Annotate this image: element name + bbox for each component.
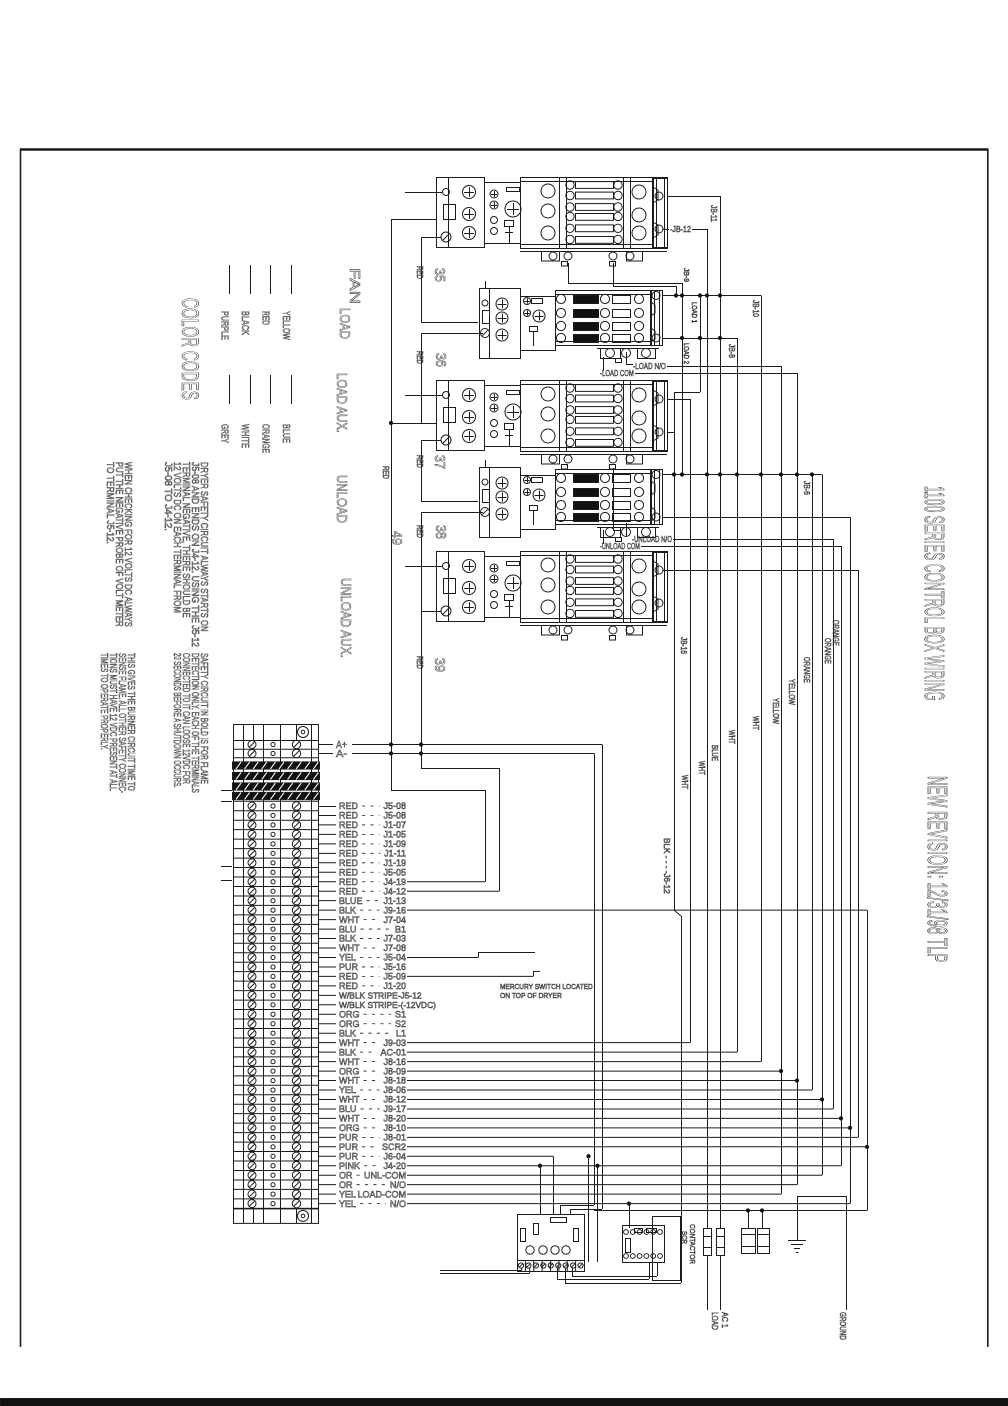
legend tick BLUE bbox=[291, 375, 293, 404]
bus: unload coil bottom bbox=[662, 517, 850, 519]
bottom scan band bbox=[1, 1399, 1008, 1406]
svg-text:AC 1: AC 1 bbox=[720, 1312, 729, 1328]
border frame top bbox=[20, 148, 989, 151]
svg-text:SCR: SCR bbox=[680, 1231, 688, 1244]
svg-text:MERCURY SWITCH LOCATED: MERCURY SWITCH LOCATED bbox=[500, 984, 593, 991]
svg-text:LOAD: LOAD bbox=[337, 308, 354, 339]
svg-text:JB-8: JB-8 bbox=[727, 344, 737, 358]
svg-text:UNLOAD AUX.: UNLOAD AUX. bbox=[338, 578, 355, 658]
contactor 39 (UNLOAD AUX) bbox=[437, 551, 668, 640]
svg-text:BLACK: BLACK bbox=[240, 311, 251, 335]
legend tick BLACK bbox=[250, 265, 252, 294]
power board terminal row bbox=[518, 1261, 585, 1272]
terminal strip top cap bbox=[234, 725, 319, 741]
wire UNL N/O row bbox=[407, 1184, 797, 1186]
svg-text:35: 35 bbox=[432, 268, 449, 282]
wire JB-11 bbox=[667, 196, 720, 198]
terminal strip bottom cap bbox=[234, 1208, 319, 1223]
svg-text:COLOR CODES: COLOR CODES bbox=[176, 298, 203, 400]
extra drops beside power board bbox=[586, 1154, 590, 1158]
svg-text:LOAD 1: LOAD 1 bbox=[690, 302, 698, 323]
svg-text:A-: A- bbox=[336, 748, 348, 759]
wire UNLOAD COM bbox=[603, 530, 605, 544]
wire fuse2 to LOAD AC1 bbox=[720, 1255, 722, 1310]
wire: red daisy chain 37 to 38 bbox=[421, 440, 441, 442]
wire LOAD COM bbox=[603, 357, 605, 371]
bracket marks left of strip bbox=[221, 790, 232, 792]
svg-text:GREY: GREY bbox=[219, 424, 231, 443]
row wires to vertical bus drops bbox=[407, 1042, 690, 1044]
bus: contactor 39 clamp bbox=[663, 570, 858, 572]
wire red tail to J4-12 bbox=[421, 768, 499, 770]
svg-text:YEL: YEL bbox=[339, 1199, 356, 1209]
legend tick GREY bbox=[229, 375, 231, 404]
wire UNL-COM row bbox=[407, 1174, 822, 1176]
power board left stubs bbox=[440, 1270, 522, 1272]
wire 49 tail to J4-19 bbox=[391, 790, 485, 792]
bus line to transformer fuses bbox=[594, 1210, 867, 1212]
svg-text:GROUND: GROUND bbox=[838, 1312, 848, 1340]
svg-text:WHT: WHT bbox=[751, 716, 760, 731]
svg-text:-LOAD COM: -LOAD COM bbox=[600, 370, 634, 378]
contactor 36 (LOAD) bbox=[480, 281, 663, 363]
power supply board bbox=[518, 1215, 585, 1261]
ground symbol bbox=[797, 1205, 799, 1240]
svg-text:20 SECONDS BEFORE A SHUTDOWN O: 20 SECONDS BEFORE A SHUTDOWN OCCURS. bbox=[172, 653, 183, 788]
svg-text:ORANGE: ORANGE bbox=[260, 424, 272, 453]
terminal strip bold flame rows (hatched) bbox=[233, 762, 320, 769]
wire A- bbox=[352, 753, 594, 755]
fuse 1 (JB-12 feed) bbox=[704, 1229, 712, 1256]
wire: input stub contactor 37 bbox=[405, 395, 442, 397]
wire LOAD N/O bbox=[626, 352, 628, 364]
wire BLK J6-12 long drop bbox=[667, 432, 674, 434]
svg-text:RED: RED bbox=[415, 656, 424, 669]
wire JB-12 bbox=[663, 229, 669, 231]
svg-text:RED: RED bbox=[415, 455, 424, 468]
svg-text:WHITE: WHITE bbox=[240, 424, 251, 448]
bus: load coil top (JB-10) bbox=[662, 295, 761, 297]
legend tick RED bbox=[270, 265, 272, 294]
wire: red tail from 39 down to A- bbox=[421, 611, 441, 613]
legend tick YELLOW bbox=[291, 265, 293, 294]
svg-text:RED: RED bbox=[415, 351, 424, 364]
svg-text:JB-10: JB-10 bbox=[751, 300, 761, 317]
svg-text:ORANGE: ORANGE bbox=[802, 657, 810, 683]
svg-text:49: 49 bbox=[389, 531, 406, 545]
svg-text:FAN: FAN bbox=[346, 268, 363, 304]
svg-text:36: 36 bbox=[433, 353, 450, 367]
svg-text:JB-11: JB-11 bbox=[709, 205, 719, 222]
svg-text:UNLOAD: UNLOAD bbox=[334, 475, 351, 523]
svg-text:YELLOW: YELLOW bbox=[281, 311, 293, 341]
wire JB-16 from contactor 37 bbox=[667, 399, 690, 401]
wire fuse1 to LOAD AC1 bbox=[707, 1255, 709, 1310]
svg-text:N/O: N/O bbox=[390, 1199, 406, 1209]
legend tick PURPLE bbox=[229, 265, 231, 294]
svg-text:-LOAD N/O: -LOAD N/O bbox=[633, 361, 666, 371]
svg-text:JB-6: JB-6 bbox=[802, 481, 812, 495]
svg-text:YELLOW: YELLOW bbox=[771, 698, 780, 724]
svg-text:J5-08 TO J4-12.: J5-08 TO J4-12. bbox=[162, 462, 173, 531]
wire N/O branch into SCR bbox=[627, 1202, 631, 1206]
transformer fuse holders bbox=[742, 1229, 756, 1254]
bus: unload coil top bbox=[662, 474, 822, 476]
wire: mid stub contactor 37 bbox=[391, 423, 436, 425]
power board terminal drop wires bbox=[557, 1268, 559, 1279]
wire: red daisy chain 38 to 39 bbox=[421, 512, 483, 514]
fuse 2 (JB-11 feed) bbox=[717, 1229, 725, 1256]
terminal strip body bbox=[234, 741, 319, 1209]
wire: contactor 35 foot to bus1 bbox=[613, 263, 615, 286]
svg-text:BLUE: BLUE bbox=[710, 745, 719, 761]
wire LOAD N/O row bbox=[407, 1203, 850, 1205]
wire: red daisy chain 35 to 36 bbox=[421, 237, 441, 239]
bus: load coil bottom (JB-8) bbox=[662, 338, 737, 340]
svg-text:LOAD: LOAD bbox=[710, 1312, 720, 1330]
svg-text:WHT: WHT bbox=[697, 761, 706, 776]
wire: red daisy chain 36 to 37 bbox=[421, 333, 483, 335]
svg-text:-JB-12: -JB-12 bbox=[670, 225, 691, 235]
svg-text:ON TOP OF DRYER: ON TOP OF DRYER bbox=[500, 992, 562, 1000]
svg-text:WHT: WHT bbox=[680, 775, 689, 790]
terminal row labels bbox=[318, 744, 333, 746]
svg-text:JB-16: JB-16 bbox=[679, 637, 689, 654]
svg-text:LOAD AUX.: LOAD AUX. bbox=[334, 373, 351, 433]
wire: contactor 37 foot drop bbox=[613, 468, 615, 530]
wire J6-04 to power board bbox=[407, 1155, 553, 1157]
svg-text:LOAD 2: LOAD 2 bbox=[682, 343, 690, 364]
wire UNLOAD N/O bbox=[626, 523, 628, 536]
svg-text:WHT: WHT bbox=[727, 730, 736, 745]
legend tick WHITE bbox=[250, 375, 252, 404]
wire J5-09 mercury bbox=[407, 975, 533, 977]
border frame left bbox=[20, 149, 22, 1347]
contactor 38 (UNLOAD) bbox=[480, 460, 663, 542]
svg-text:1100 SERIES CONTROL BOX WIRING: 1100 SERIES CONTROL BOX WIRING bbox=[919, 486, 951, 701]
svg-text:RED: RED bbox=[415, 266, 424, 279]
contactor 37 (LOAD AUX) bbox=[437, 380, 668, 469]
wire JB-6 bbox=[812, 475, 814, 1091]
wire to GROUND label bbox=[797, 1196, 799, 1205]
wire A+ bbox=[352, 744, 602, 746]
svg-text:-UNLOAD COM: -UNLOAD COM bbox=[600, 543, 640, 551]
svg-text:ORANGE: ORANGE bbox=[831, 620, 839, 646]
wire LOAD 1 bbox=[700, 296, 702, 393]
svg-text:ORANGE: ORANGE bbox=[823, 638, 831, 664]
terminal strip screws bbox=[248, 741, 256, 749]
svg-text:YELLOW: YELLOW bbox=[787, 679, 796, 705]
svg-text:BLK - - - -J6-12: BLK - - - -J6-12 bbox=[662, 838, 671, 894]
wire to power board 2 bbox=[538, 1164, 542, 1168]
svg-text:NEW REVISION: 12/31/98 TLP: NEW REVISION: 12/31/98 TLP bbox=[922, 776, 954, 962]
svg-text:38: 38 bbox=[433, 525, 450, 539]
svg-text:39: 39 bbox=[432, 658, 449, 672]
legend tick ORANGE bbox=[270, 375, 272, 404]
SCR contactor bbox=[653, 1217, 681, 1281]
svg-text:TO TERMINAL J5-12.: TO TERMINAL J5-12. bbox=[105, 462, 116, 544]
wire: input stub contactor 39 bbox=[405, 566, 442, 568]
svg-text:BLUE: BLUE bbox=[281, 424, 292, 443]
wire: contactor 35 foot to load2 line bbox=[568, 263, 570, 283]
wire J5-04 mercury bbox=[407, 956, 478, 958]
border frame right bbox=[987, 149, 989, 1347]
svg-text:PURPLE: PURPLE bbox=[219, 311, 230, 340]
wire J9-16 row to SCR2 drop bbox=[407, 909, 867, 911]
svg-text:TIMES TO OPERATE PROPERLY.: TIMES TO OPERATE PROPERLY. bbox=[99, 653, 111, 750]
contactor 35 (FAN) bbox=[437, 177, 668, 266]
wire J4-20 row bbox=[407, 1165, 841, 1167]
wire 49: long red bus from contactor 35 left bbox=[391, 219, 436, 221]
svg-text:JB-9: JB-9 bbox=[682, 268, 689, 282]
svg-text:RED: RED bbox=[381, 466, 390, 479]
svg-text:CONTACTOR: CONTACTOR bbox=[688, 1224, 696, 1264]
svg-text:RED: RED bbox=[260, 311, 272, 325]
wire LOAD-COM row bbox=[407, 1193, 781, 1195]
svg-text:37: 37 bbox=[432, 455, 449, 469]
wire: input stub contactor 35 bbox=[405, 192, 442, 194]
svg-text:RED: RED bbox=[415, 525, 424, 538]
